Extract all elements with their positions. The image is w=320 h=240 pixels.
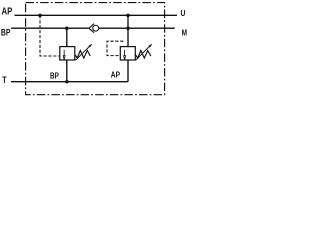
wire valve1 outlet xyxy=(66,60,68,82)
wire valve2 inlet xyxy=(127,15,129,46)
svg-text:BP: BP xyxy=(50,71,59,81)
node BP-valve1 junction xyxy=(65,26,69,30)
svg-text:T: T xyxy=(2,75,6,85)
check valve seat xyxy=(89,24,94,33)
port BP line (left of check valve) xyxy=(11,27,89,29)
svg-text:AP: AP xyxy=(111,70,120,80)
valve label BP xyxy=(50,71,59,81)
relief valve BP adjust arrow xyxy=(76,44,92,60)
relief valve BP body xyxy=(60,47,75,60)
port label T xyxy=(2,75,6,85)
wire valve2 outlet xyxy=(127,60,129,82)
node M-valve2 junction xyxy=(126,26,130,30)
port T line xyxy=(11,81,128,83)
svg-text:BP: BP xyxy=(1,27,11,37)
svg-text:AP: AP xyxy=(2,6,13,17)
port label AP xyxy=(2,6,13,17)
relief valve AP adjust arrow xyxy=(136,44,152,60)
wire valve1 inlet xyxy=(66,28,68,46)
relief valve AP body xyxy=(120,47,135,60)
valve label AP xyxy=(111,70,120,80)
svg-text:U: U xyxy=(181,8,186,18)
node AP-pilot junction xyxy=(38,14,42,18)
relief valve AP flow arrow xyxy=(124,50,126,60)
svg-text:M: M xyxy=(182,28,187,38)
port label BP xyxy=(1,27,11,37)
pilot line to valve BP (dashed, from AP) xyxy=(40,15,60,56)
relief valve BP flow arrow xyxy=(63,50,65,60)
port AP line xyxy=(15,14,178,16)
check valve ball xyxy=(93,25,99,31)
port label M xyxy=(182,28,187,38)
enclosure boundary (dash-dot box) xyxy=(26,3,165,95)
node T-valve1 junction xyxy=(65,80,69,84)
relief valve BP spring xyxy=(75,51,91,59)
node AP-valve2 junction xyxy=(126,14,130,18)
pilot line to valve AP (dashed, from own inlet) xyxy=(107,41,123,55)
relief valve AP spring xyxy=(135,51,151,59)
port BP line (right of check valve, to M) xyxy=(98,27,174,29)
port label U xyxy=(181,8,186,18)
